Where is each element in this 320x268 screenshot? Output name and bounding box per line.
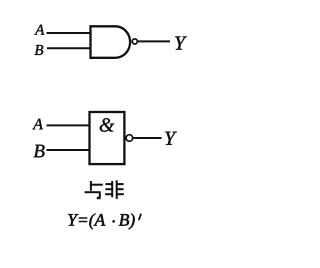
- output label Y (bottom gate): [165, 132, 177, 145]
- AND function qualifier "&" inside IEC body: [100, 118, 115, 132]
- inversion bubble (top gate output): [132, 39, 137, 44]
- input label A (top gate): [34, 25, 44, 35]
- wire: top gate output to Y: [138, 40, 170, 42]
- NAND gate U2 (IEC rectangular body): [90, 112, 125, 164]
- wire: input A to IEC NAND gate: [47, 124, 91, 126]
- caption character 与 (of 与非 "NAND") drawn as strokes: [85, 181, 103, 198]
- input label A (bottom gate): [32, 119, 43, 130]
- equation Y=(A·B)': [68, 213, 105, 229]
- input label B (top gate): [35, 45, 44, 55]
- input label B (bottom gate): [34, 145, 45, 158]
- NAND gate U1 (distinctive-shape AND body with output bubble): [91, 26, 131, 58]
- wire: input B to top NAND gate: [47, 47, 91, 49]
- inversion bubble (bottom gate output): [126, 135, 133, 142]
- caption character 非 (of 与非 "NAND") drawn as strokes: [105, 180, 124, 199]
- wire: input A to top NAND gate: [47, 32, 92, 34]
- wire: bottom gate output to Y: [134, 137, 162, 139]
- wire: input B to IEC NAND gate: [47, 149, 91, 151]
- output label Y (top gate): [175, 37, 187, 50]
